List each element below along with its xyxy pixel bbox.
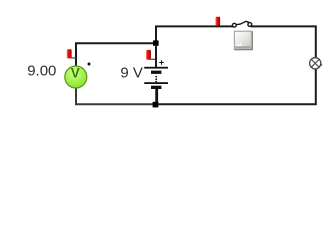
svg-text:9.00: 9.00 (27, 63, 56, 80)
switch right terminal (248, 23, 252, 27)
battery cell-continuation dots (155, 76, 157, 78)
current marker (red flag) at voltmeter lead (67, 49, 76, 58)
switch left terminal (232, 23, 236, 27)
battery bottom long plate (+) (144, 82, 168, 84)
current marker (red flag) at battery lead (146, 50, 156, 60)
battery bottom short thick plate (-) (151, 86, 161, 89)
battery (9 V cell stack) (144, 45, 168, 102)
switch (closed, with terminals and blade) (232, 21, 251, 27)
battery top short thick plate (-) (151, 71, 161, 74)
current marker (red flag) at switch lead (216, 17, 221, 26)
lamp (circle with X) (310, 58, 323, 69)
junction: battery top node (153, 40, 159, 45)
junction: battery bottom node (153, 102, 159, 108)
wire: lamp bottom down and left to battery-bottom node (158, 69, 316, 104)
wire: battery-bottom node left and up to voltmeter bottom lead (76, 88, 153, 104)
battery top stub (155, 45, 157, 67)
svg-text:9 V: 9 V (120, 64, 143, 81)
wire: battery-top node up and right to switch left terminal (156, 26, 233, 41)
voltmeter (green circular meter, V) (65, 66, 87, 89)
battery plus sign (159, 60, 164, 65)
voltmeter probe dot (88, 63, 91, 66)
switch pushbutton (grey beveled key) (234, 31, 253, 50)
battery bottom stub (155, 89, 158, 102)
switch blade (236, 21, 249, 24)
wire: voltmeter top lead up and right to battery-top node (76, 43, 153, 67)
svg-text:V: V (71, 66, 80, 81)
battery top long plate (+) (144, 67, 168, 69)
wire: switch right terminal right and down to lamp top (251, 26, 316, 58)
